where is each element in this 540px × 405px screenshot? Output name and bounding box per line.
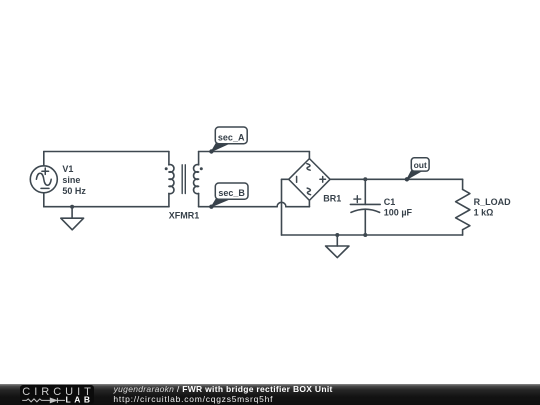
footer bar [0, 384, 540, 405]
capacitor C1 curved bottom plate [351, 209, 380, 212]
transformer XFMR1 primary phase dot [165, 167, 168, 170]
capacitor C1 plus sign [354, 196, 361, 203]
resistor R_LOAD zigzag [456, 189, 470, 229]
resistor R_LOAD bottom lead [462, 230, 464, 235]
footer credit line 2 [113, 394, 273, 404]
transformer XFMR1 primary winding [169, 152, 174, 207]
transformer XFMR1 secondary phase dot [200, 167, 203, 170]
node junction C1 bottom on ground rail [363, 233, 367, 237]
bridge BR1 AC tilde mark bottom [307, 188, 310, 195]
wire bridge minus lead left [282, 178, 289, 180]
wire plus rail: bridge to R_LOAD corner [330, 178, 463, 180]
wire secondary top rail: XFMR1 to bridge top [199, 151, 310, 153]
node junction C1 top on plus rail [363, 177, 367, 181]
svg-text:out: out [414, 160, 427, 170]
transformer XFMR1 secondary winding [194, 152, 199, 207]
node junction on bottom rail at ground G1 [70, 205, 74, 209]
wire hop over bridge minus wire [277, 202, 286, 206]
svg-text:XFMR1: XFMR1 [169, 211, 200, 221]
bridge BR1 minus terminal mark [296, 176, 298, 182]
svg-text:50 Hz: 50 Hz [62, 186, 86, 196]
net flag out [405, 158, 429, 182]
wire bridge minus vertical down to bottom rail [281, 179, 283, 235]
svg-text:BR1: BR1 [323, 194, 341, 204]
net flag sec_A [209, 127, 247, 154]
capacitor C1 top stem [364, 179, 366, 204]
svg-text:sec_A: sec_A [218, 132, 245, 142]
wire V1 top stem [43, 152, 45, 166]
ground G1 [61, 218, 84, 230]
footer credit line 1 [114, 384, 333, 394]
svg-text:sec_B: sec_B [218, 188, 245, 198]
ground G2 stem [336, 235, 338, 246]
voltage source V1 [30, 166, 57, 193]
wire bottom rail primary: V1 bottom to XFMR1 primary bottom [44, 206, 169, 208]
bridge BR1 plus terminal mark [320, 177, 326, 183]
wire V1 bottom stem [43, 193, 45, 207]
capacitor C1 bottom stem [364, 209, 366, 235]
svg-text:sine: sine [62, 175, 80, 185]
svg-text:C1: C1 [384, 197, 396, 207]
wire secondary bottom rail right segment: hop to bridge bottom [286, 206, 310, 208]
ground G1 stem [71, 207, 73, 219]
bridge rectifier BR1 body [289, 159, 330, 201]
svg-text:V1: V1 [62, 164, 73, 174]
CircuitLab logo panel [20, 385, 94, 404]
bridge BR1 AC tilde mark top [307, 164, 310, 171]
wire bridge bottom stem [308, 200, 310, 206]
logo mini schematic resistor and diode [22, 398, 65, 403]
wire bridge top stem [308, 152, 310, 159]
resistor R_LOAD top lead [462, 179, 464, 189]
svg-text:1 kΩ: 1 kΩ [474, 208, 494, 218]
capacitor C1 top plate [350, 203, 380, 205]
wire secondary bottom rail left segment: XFMR1 to hop [199, 206, 278, 208]
wire top rail primary: V1 top to XFMR1 primary top [44, 151, 169, 153]
ground G2 [326, 246, 349, 258]
svg-text:R_LOAD: R_LOAD [474, 197, 512, 207]
transformer XFMR1 core [182, 165, 185, 194]
net flag sec_B [209, 183, 248, 209]
svg-text:100 µF: 100 µF [384, 208, 413, 218]
wire bottom ground rail [282, 234, 463, 236]
node junction ground tap on bottom rail [335, 233, 339, 237]
